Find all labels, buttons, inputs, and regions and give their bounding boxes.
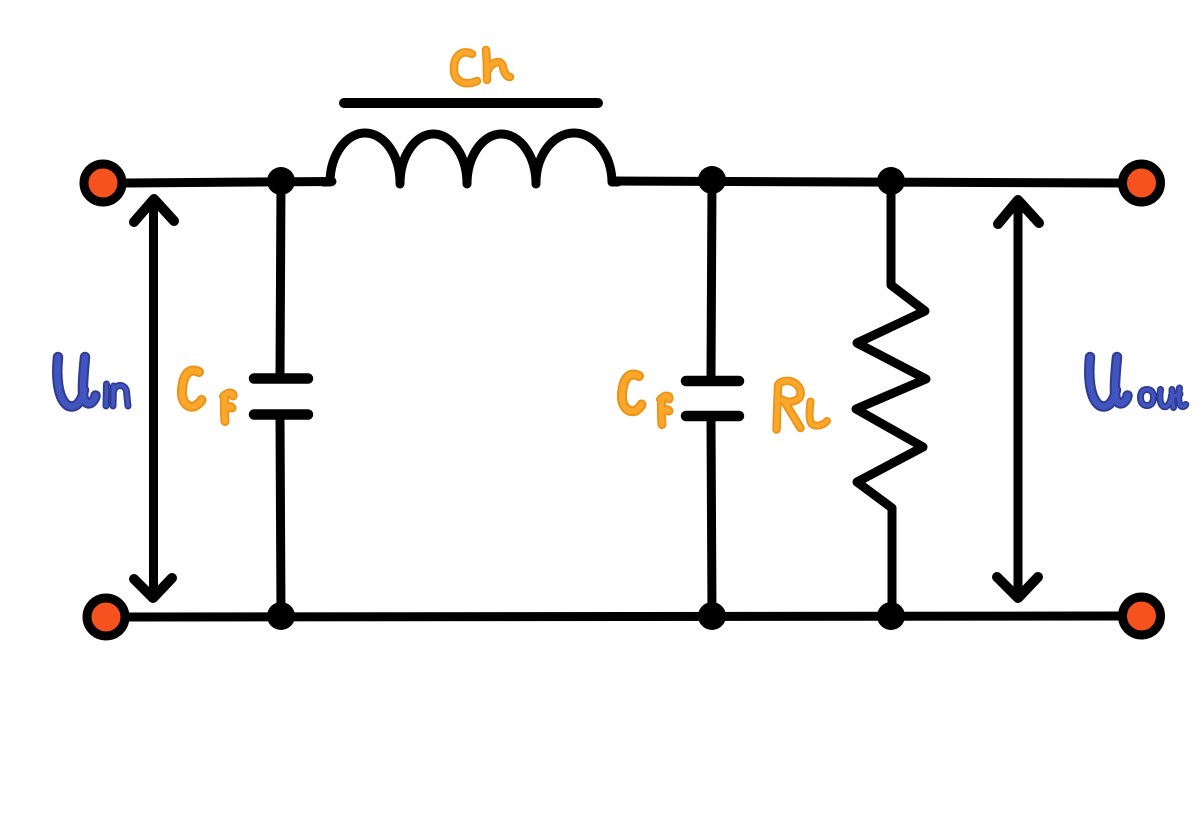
capacitor C_F (output) upper lead wire — [711, 181, 712, 377]
label Ch — [454, 50, 510, 83]
label U_in — [57, 357, 128, 407]
label C_F (output) — [622, 375, 669, 425]
voltage arrow U_out (double-headed) — [1014, 204, 1023, 592]
terminal IN- — [87, 598, 125, 636]
label U_out — [1089, 357, 1186, 408]
capacitor C_F (output) lower lead wire — [711, 419, 712, 616]
wire top-right segment (inductor to OUT+ terminal) — [612, 181, 1122, 183]
label C_F (input) — [182, 371, 233, 422]
terminal IN+ — [84, 164, 122, 202]
wire top-left segment (IN+ terminal to node A) — [122, 182, 332, 184]
node C (top, load junction) — [877, 167, 905, 195]
node B (top, output cap junction) — [698, 166, 726, 194]
wire bottom rail — [126, 616, 1122, 617]
terminal OUT+ — [1123, 164, 1161, 202]
voltage arrow U_in (double-headed) — [149, 203, 158, 592]
capacitor C_F (input) lower lead wire — [280, 417, 281, 616]
node D (bottom, input cap junction) — [267, 602, 295, 630]
node E (bottom, output cap junction) — [698, 602, 726, 630]
resistor R_L (zigzag) — [856, 182, 926, 616]
terminal OUT- — [1123, 597, 1161, 635]
capacitor C_F (output) plates — [686, 376, 739, 387]
node F (bottom, load junction) — [877, 602, 905, 630]
node A (top, input cap junction) — [267, 167, 295, 195]
inductor Ch overbar — [344, 98, 598, 108]
capacitor C_F (input) upper lead wire — [280, 182, 281, 375]
capacitor C_F (input) plates — [254, 373, 308, 384]
label R_L — [777, 381, 828, 430]
inductor Ch — [323, 133, 618, 184]
